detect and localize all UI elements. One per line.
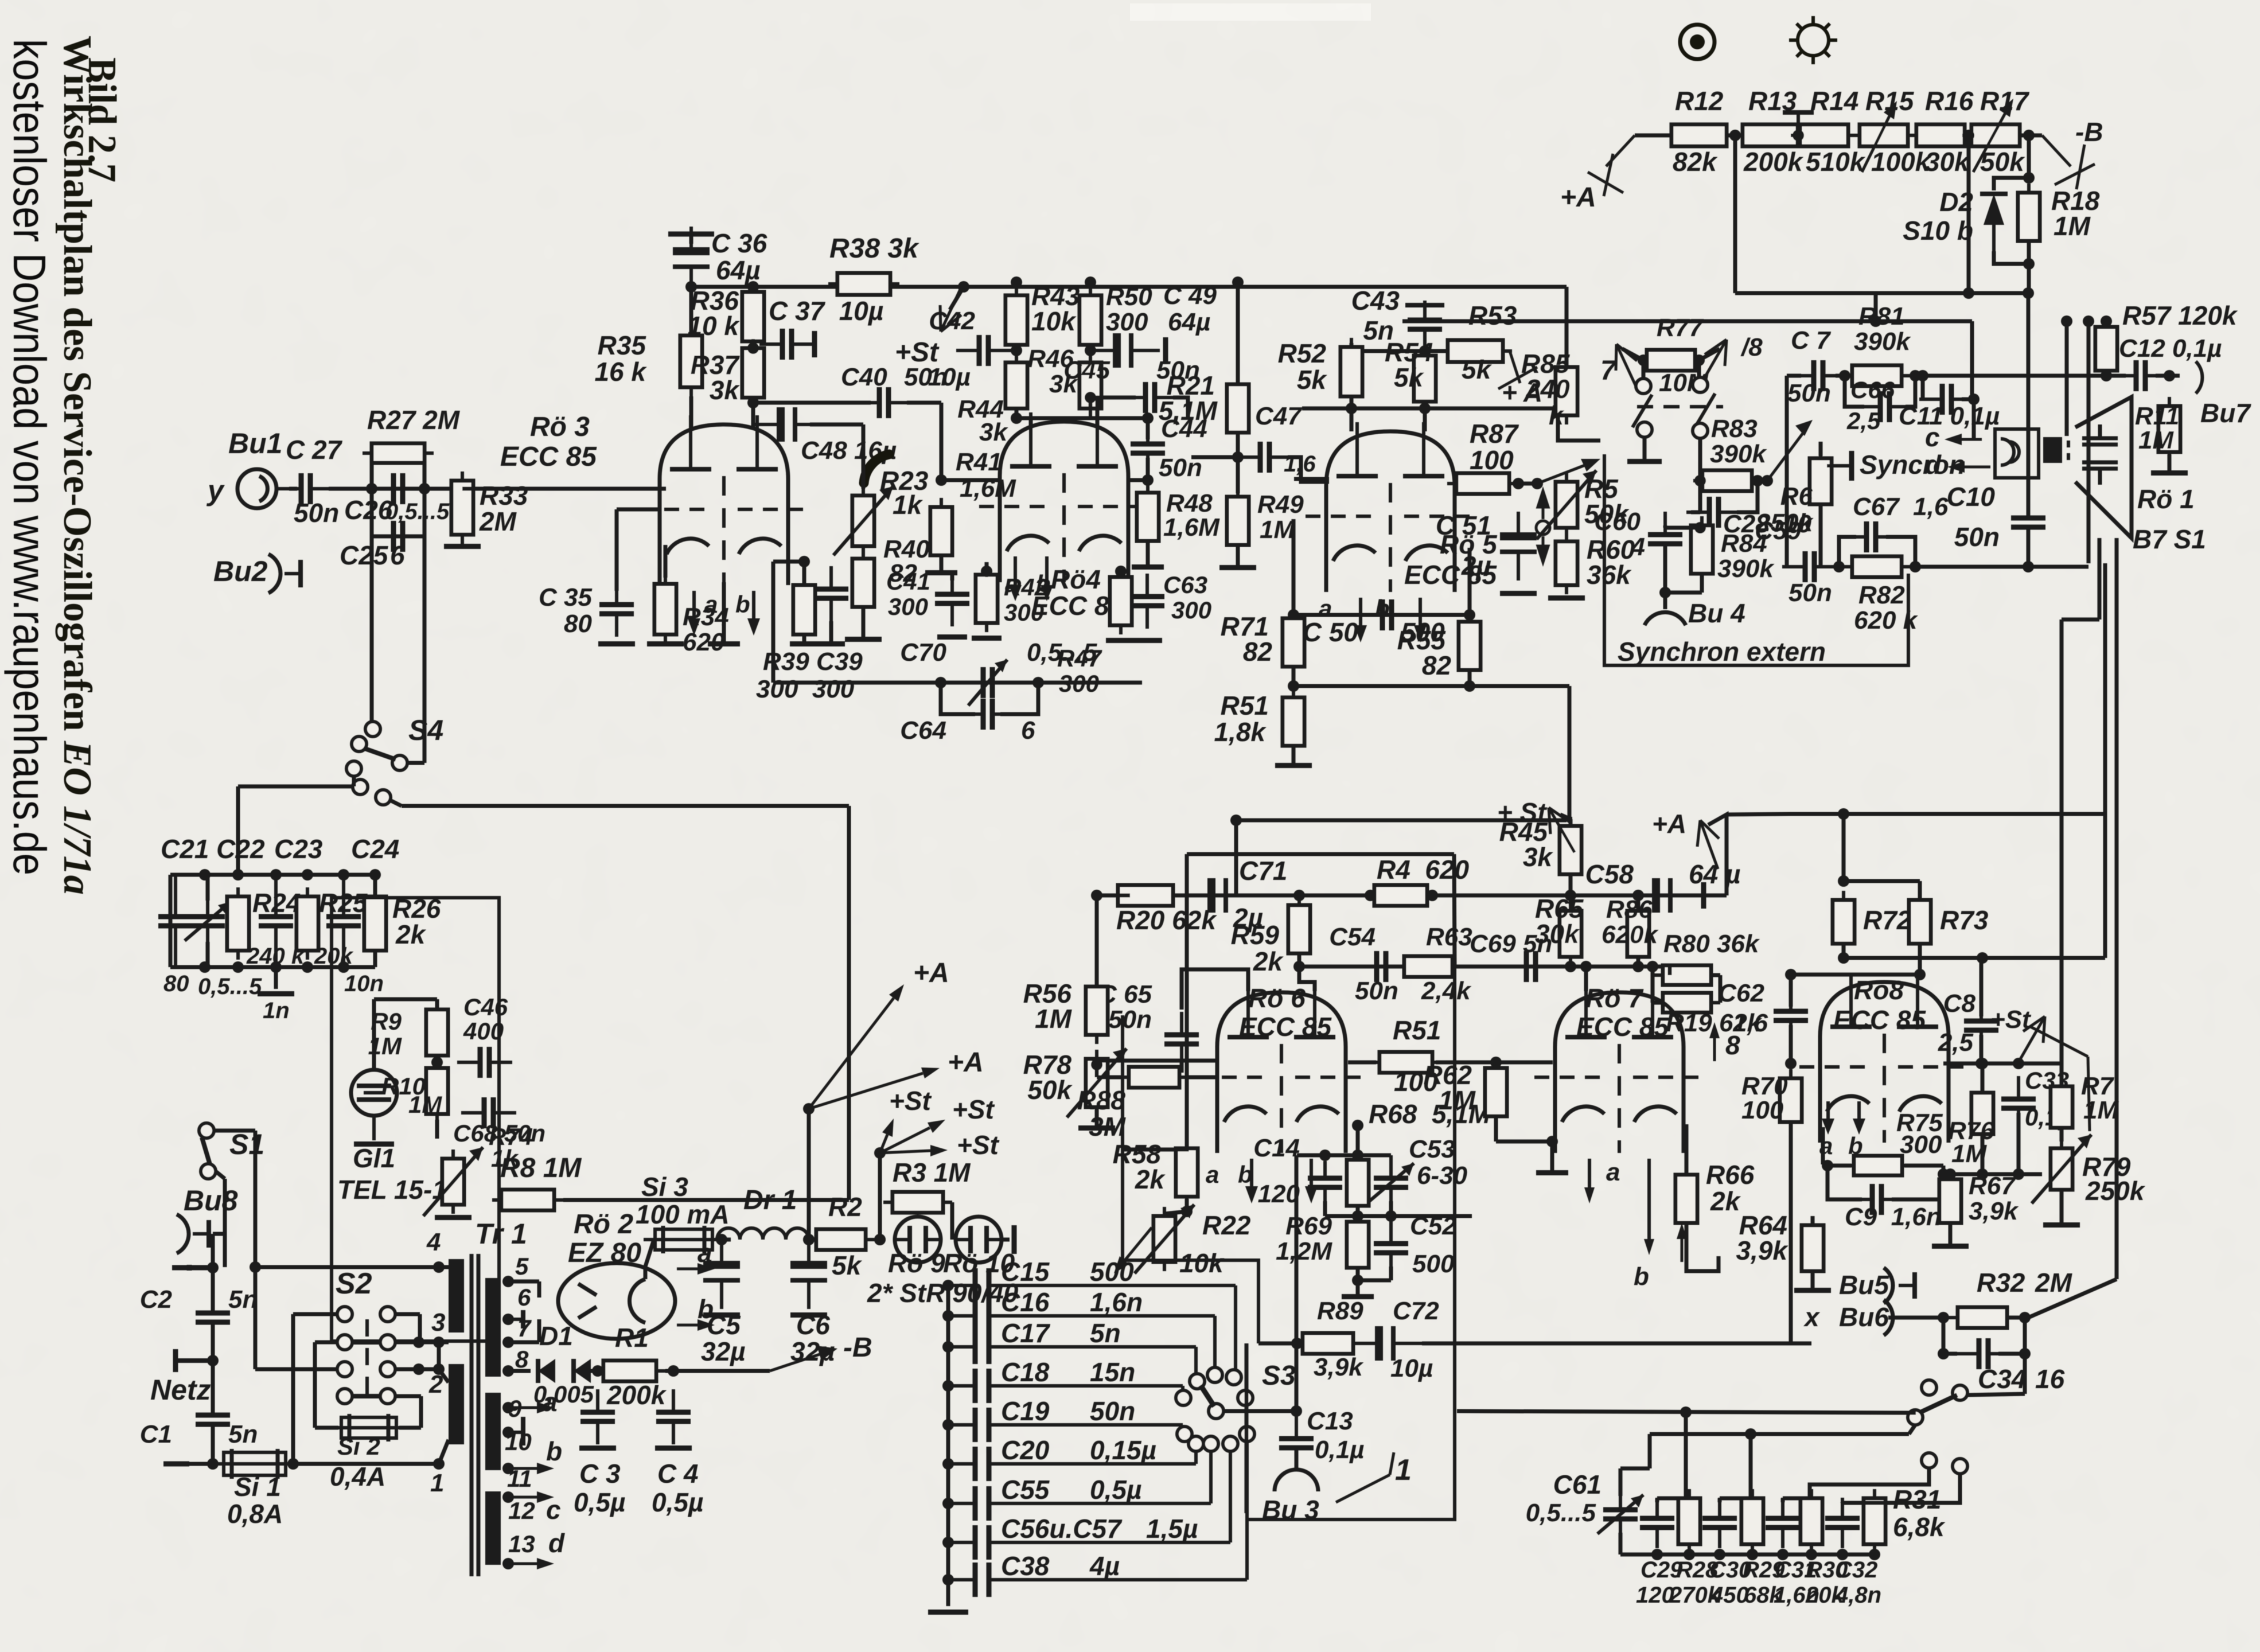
wire [591, 1369, 598, 1373]
node [2019, 1348, 2031, 1359]
wire [1494, 1062, 1498, 1067]
pointer 1 [1336, 1475, 1390, 1502]
node [1293, 961, 1305, 972]
wire [1182, 969, 1248, 991]
CRT deflection plates [2082, 424, 2118, 485]
svg-text:5n: 5n [228, 1420, 258, 1448]
tube Ro3 pins [688, 591, 700, 636]
resistor R18 [2018, 184, 2040, 250]
node [1085, 276, 1096, 288]
svg-text:R31: R31 [1893, 1485, 1941, 1514]
wire [1436, 1061, 1553, 1065]
resistor R50 [1080, 286, 1101, 354]
svg-text:0,5µ: 0,5µ [652, 1487, 703, 1517]
wire [372, 535, 424, 539]
wire [773, 560, 804, 564]
resistor R9 [426, 1000, 448, 1065]
tap 7 [1616, 344, 1638, 391]
node [199, 961, 211, 973]
wire [1665, 591, 1702, 595]
wire [407, 761, 424, 765]
wire [1842, 1501, 1875, 1505]
ground C35 [598, 641, 635, 646]
terminal R13R14 [1797, 112, 1800, 135]
pot arrow R5 [1537, 462, 1592, 484]
svg-text:Rö8: Rö8 [1854, 975, 1904, 1005]
ground Ro7 cathode [1536, 1170, 1568, 1175]
capacitor C31 [1766, 1498, 1800, 1548]
capacitor C10 [2011, 495, 2045, 550]
resistor R76 [1971, 1084, 1993, 1143]
resistor R68 [1347, 1151, 1369, 1215]
resistor R33 [451, 472, 473, 544]
ground R40 [845, 637, 882, 642]
node [1975, 1058, 1987, 1069]
node [1291, 1405, 1302, 1417]
svg-text:C 35: C 35 [539, 583, 592, 611]
resistor R29 [1741, 1489, 1763, 1553]
svg-text:a: a [1606, 1158, 1620, 1186]
svg-text:C61: C61 [1553, 1470, 1602, 1499]
riser C31 R30 [1810, 1468, 1929, 1498]
svg-text:32µ: 32µ [701, 1337, 746, 1366]
svg-text:100k: 100k [1871, 147, 1931, 177]
svg-text:C 51: C 51 [1436, 511, 1491, 540]
node [433, 1261, 445, 1273]
wire [202, 1137, 210, 1164]
node [502, 1463, 514, 1474]
wire [615, 509, 619, 591]
resistor R52 [1341, 338, 1362, 406]
svg-text:C41: C41 [886, 568, 930, 595]
svg-text:R22: R22 [1202, 1210, 1251, 1240]
resistor R82 [1843, 556, 1911, 577]
svg-text:0,1µ: 0,1µ [1315, 1436, 1365, 1464]
svg-text:Bu7: Bu7 [2200, 398, 2251, 428]
svg-text:6: 6 [517, 1284, 531, 1311]
node [803, 1234, 815, 1245]
svg-text:R57 120k: R57 120k [2122, 301, 2238, 330]
wire [370, 453, 374, 489]
wire [1565, 287, 1569, 367]
box sweep generator [1123, 1015, 1258, 1343]
capacitor C62 [1774, 988, 1808, 1043]
svg-text:10k: 10k [1179, 1248, 1225, 1278]
terminal C37 [812, 331, 817, 357]
node [2061, 315, 2072, 327]
wire [1180, 980, 1184, 1010]
svg-text:C52: C52 [1410, 1212, 1456, 1240]
svg-text:-B: -B [843, 1332, 872, 1363]
resistor R87 [1447, 473, 1518, 494]
wire [236, 786, 240, 875]
switch S3 contact [1226, 1370, 1241, 1385]
resistor R19 [1654, 993, 1720, 1012]
wire [1665, 526, 1700, 530]
wire [1119, 568, 1123, 576]
node [1546, 1136, 1558, 1147]
wire grid row [1943, 1062, 2062, 1066]
ground switch [1627, 459, 1662, 464]
wire [1811, 1272, 1815, 1288]
wire [1657, 1497, 1689, 1501]
wire [689, 287, 693, 336]
svg-text:8: 8 [515, 1346, 529, 1373]
wire [373, 875, 377, 896]
svg-text:10µ: 10µ [928, 363, 971, 391]
wire [2060, 1077, 2064, 1086]
node [1680, 1406, 1692, 1418]
node [1659, 587, 1671, 598]
node [502, 1314, 514, 1325]
node [502, 1558, 514, 1569]
wire [1737, 481, 1758, 512]
svg-text:510k: 510k [1806, 147, 1866, 177]
node [433, 1363, 445, 1375]
capacitor C28 [1686, 497, 1741, 528]
resistor R37 [742, 339, 764, 407]
potentiometer R23 [852, 486, 874, 555]
capacitor C1 [196, 1392, 230, 1447]
switch contact [1637, 422, 1652, 437]
svg-text:50n: 50n [1954, 522, 2000, 552]
switch S3 contact [1238, 1390, 1253, 1405]
svg-text:1n: 1n [263, 998, 290, 1023]
resistor R86 [1627, 902, 1649, 966]
resistor R77 [1638, 350, 1704, 371]
wire [1129, 478, 1148, 482]
svg-text:C19: C19 [1001, 1396, 1050, 1426]
resistor R16 [1907, 124, 1974, 146]
capacitor C55 [948, 1502, 975, 1505]
wire [1697, 360, 1701, 377]
wire [1942, 1166, 1946, 1174]
svg-text:2,5: 2,5 [1846, 407, 1881, 434]
wire Ro7 anode a [1584, 967, 1588, 991]
wire [751, 399, 755, 429]
wire [862, 607, 866, 637]
wire [1097, 894, 1130, 898]
capacitor C42 [956, 335, 1011, 366]
svg-text:300: 300 [1004, 599, 1044, 626]
ground [708, 641, 740, 646]
wire [1452, 967, 1456, 969]
long feedback wire top [1187, 852, 1454, 856]
svg-text:C20: C20 [1001, 1435, 1050, 1465]
node [1011, 276, 1022, 288]
resistor R45 [1560, 817, 1581, 883]
svg-text:R63: R63 [1426, 923, 1472, 951]
resistor R41 [930, 498, 952, 564]
ink blot artifact [864, 454, 889, 483]
arrow +St 3 [880, 1145, 948, 1156]
resistor R6 [1810, 449, 1832, 513]
wire [1558, 408, 1600, 441]
node [199, 869, 211, 880]
svg-text:R12: R12 [1675, 86, 1724, 116]
node [1777, 1549, 1788, 1560]
resistor R89 [1293, 1333, 1362, 1354]
wire [329, 487, 462, 491]
wire [907, 401, 941, 405]
Ro8 pin arrows [1822, 1101, 1834, 1135]
capacitor C66 [1857, 391, 1912, 422]
svg-text:80: 80 [163, 971, 189, 996]
wire [802, 636, 806, 642]
svg-text:Si 1: Si 1 [234, 1472, 281, 1502]
svg-text:+A: +A [948, 1047, 984, 1078]
wire to Ro3 grid [462, 487, 666, 491]
svg-text:2µ: 2µ [1461, 551, 1491, 580]
resistor R11 [2158, 397, 2180, 461]
wire [1560, 815, 1571, 819]
svg-text:0,8A: 0,8A [227, 1499, 283, 1529]
switch S2 contact [337, 1389, 352, 1404]
wire [2106, 374, 2126, 378]
resistor R71 [1283, 609, 1304, 676]
svg-text:R89: R89 [1317, 1297, 1363, 1325]
switch S4 contact [346, 761, 361, 776]
switch contact [1693, 377, 1708, 392]
ground [435, 1215, 472, 1220]
fuse Si3 [644, 1226, 724, 1253]
wire [1164, 1211, 1187, 1214]
wire [1836, 374, 1845, 378]
wire [1663, 544, 1667, 593]
wire [1089, 398, 1093, 408]
node [1232, 451, 1244, 463]
svg-text:c: c [546, 1495, 561, 1525]
switch S4 contact [365, 722, 380, 737]
node [1291, 1338, 1303, 1349]
svg-text:C12 0,1µ: C12 0,1µ [2119, 334, 2222, 363]
wire [1688, 1497, 1692, 1501]
ground R11 [2151, 470, 2188, 476]
terminal C36 top [689, 0, 694, 4]
wire [1686, 1224, 1719, 1271]
wire [439, 1440, 449, 1464]
switch S4 contact [352, 737, 367, 751]
wire to CRT [1915, 565, 2088, 569]
terminal C58 [1701, 882, 1706, 909]
node [270, 961, 282, 973]
wire [435, 999, 439, 1010]
wire [1350, 396, 1354, 431]
terminal [173, 1349, 178, 1372]
ground R60 [1548, 595, 1585, 601]
svg-text:R51: R51 [1221, 691, 1269, 720]
node [1694, 475, 1706, 486]
wire [940, 555, 944, 570]
resistor R25 [297, 887, 318, 960]
wire [1002, 1238, 1010, 1242]
connector Bu6 [1884, 1300, 1893, 1335]
svg-text:240 k: 240 k [246, 944, 305, 969]
wire [1029, 418, 1033, 426]
resistor R30 [1801, 1489, 1822, 1553]
svg-text:2k: 2k [1135, 1164, 1166, 1194]
capacitor C47 [1237, 442, 1292, 473]
node [1647, 961, 1658, 972]
node [747, 281, 759, 293]
svg-text:5,1M: 5,1M [1159, 396, 1218, 426]
capacitor C60 [1648, 512, 1682, 567]
long wire to R64 [1422, 1342, 1811, 1346]
node [302, 869, 313, 880]
node [250, 1261, 261, 1273]
capacitor C38 [948, 1578, 975, 1581]
node [1565, 890, 1576, 901]
node [2013, 1168, 2024, 1180]
node [1963, 130, 1974, 141]
wire [1292, 667, 1296, 686]
connector Bu7 [2196, 361, 2202, 393]
switch S2 contact [337, 1307, 352, 1322]
svg-text:1: 1 [430, 1469, 444, 1497]
node [1352, 1120, 1363, 1131]
svg-text:R59: R59 [1231, 920, 1280, 950]
resistor R56 [1086, 977, 1108, 1044]
svg-text:C 27: C 27 [286, 435, 343, 465]
node [232, 869, 244, 880]
svg-text:Rö 2: Rö 2 [574, 1209, 633, 1240]
svg-text:C 3: C 3 [579, 1459, 621, 1489]
wire [395, 1394, 421, 1398]
resistor R38 [828, 273, 899, 295]
tube Ro6 pins [1245, 1159, 1258, 1203]
svg-text:C2: C2 [140, 1285, 173, 1314]
svg-text:ECC 85: ECC 85 [1239, 1012, 1332, 1042]
wire [390, 800, 402, 806]
svg-text:R52: R52 [1278, 338, 1327, 368]
connector Bu3 [1275, 1470, 1318, 1491]
node [2023, 258, 2035, 270]
svg-text:R16: R16 [1925, 86, 1974, 116]
wire [1191, 455, 1238, 459]
capacitor C49 [1091, 333, 1160, 368]
ground C5 [703, 1312, 740, 1318]
wire [1811, 1216, 1815, 1224]
svg-text:3,9k: 3,9k [1314, 1353, 1364, 1381]
capacitor C4 [656, 1389, 691, 1444]
capacitor C54 [1354, 951, 1409, 982]
tube Ro3 ECC85 [639, 415, 809, 585]
resistor R75 [1845, 1156, 1911, 1175]
svg-text:C 36: C 36 [711, 228, 767, 258]
capacitor C3 [580, 1389, 615, 1444]
wire [753, 401, 871, 405]
capacitor C30 [1702, 1498, 1737, 1548]
potentiometer R78 [1086, 1050, 1108, 1116]
node [1032, 677, 1044, 688]
tube Ro7 ECC85 [1534, 983, 1704, 1153]
wire [1351, 349, 1448, 353]
svg-text:Bu2: Bu2 [213, 555, 268, 587]
resistor R43 [1006, 286, 1027, 354]
wire [1636, 957, 1641, 967]
terminal stub bottom [163, 1462, 189, 1467]
svg-text:0,5...5: 0,5...5 [198, 974, 262, 999]
wire [1949, 1174, 1953, 1178]
svg-text:Netz: Netz [150, 1374, 211, 1406]
svg-text:R83: R83 [1711, 415, 1758, 443]
svg-text:S2: S2 [336, 1267, 372, 1300]
wire [1651, 975, 1655, 1003]
wire [1998, 1318, 2025, 1354]
switch S3 contact [1176, 1390, 1191, 1405]
svg-text:2k: 2k [1710, 1186, 1741, 1216]
arrow 13 [508, 1558, 554, 1569]
resistor R2 [807, 1229, 875, 1250]
wire [1892, 1174, 1943, 1199]
node [2013, 1058, 2024, 1069]
capacitor C5 [703, 1240, 740, 1309]
svg-text:300: 300 [1106, 308, 1148, 336]
node [747, 342, 759, 354]
svg-text:4: 4 [1631, 533, 1645, 561]
diode D2 [1980, 194, 2008, 251]
svg-text:C15: C15 [1001, 1257, 1050, 1287]
capacitor C44 [1131, 421, 1165, 476]
svg-text:D1: D1 [539, 1321, 573, 1351]
svg-text:620: 620 [683, 628, 725, 656]
resistor R49 [1227, 488, 1249, 554]
svg-text:3,9k: 3,9k [1969, 1197, 2019, 1225]
capacitor C14 [1308, 1161, 1342, 1205]
svg-text:30k: 30k [1925, 147, 1970, 177]
svg-text:300: 300 [1171, 597, 1211, 624]
svg-text:Tr 1: Tr 1 [475, 1218, 527, 1250]
svg-text:10 k: 10 k [687, 311, 740, 341]
switch S3 contact [1223, 1436, 1238, 1451]
svg-text:6,8k: 6,8k [1893, 1512, 1946, 1542]
resistor R57 [2095, 318, 2117, 380]
terminal C43 [1404, 1, 1405, 2]
node [1181, 1206, 1193, 1217]
svg-text:+A: +A [913, 958, 949, 988]
capacitor C40 [856, 387, 911, 418]
node [1288, 680, 1299, 692]
capacitor C67 [1844, 521, 1899, 552]
wire [1569, 819, 1573, 825]
tap 9-10 stub [506, 1431, 510, 1434]
wire [1791, 973, 1920, 977]
wire [2060, 1128, 2064, 1141]
capacitor C59 [1782, 551, 1837, 582]
svg-text:5: 5 [515, 1253, 529, 1280]
capacitor C65 [1164, 1012, 1199, 1067]
tube Ro8 ECC85 [1799, 973, 1969, 1143]
wire [1698, 469, 1702, 512]
wire [1496, 1140, 1552, 1144]
wire [373, 951, 377, 967]
resistor R31 [1864, 1489, 1885, 1553]
svg-text:/8: /8 [1740, 333, 1763, 361]
svg-text:Bu6: Bu6 [1839, 1302, 1889, 1332]
fuse Si1 [212, 1449, 297, 1479]
svg-text:1k: 1k [893, 490, 924, 520]
supply bus +A [691, 285, 1567, 289]
transformer Tr1 right winding 3 [485, 1491, 501, 1565]
wire [1568, 686, 1572, 820]
node [685, 281, 697, 293]
wire [941, 683, 975, 714]
wire [395, 1341, 439, 1345]
svg-text:2M: 2M [479, 506, 517, 536]
node [1385, 1210, 1397, 1222]
wire R70 down [1789, 1122, 1793, 1343]
node [1938, 1348, 1949, 1359]
